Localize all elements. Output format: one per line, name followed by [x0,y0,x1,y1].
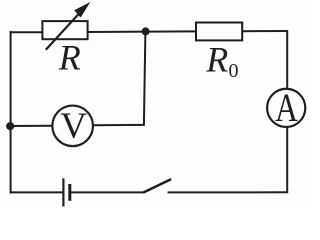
svg-text:0: 0 [229,60,239,82]
svg-text:R: R [58,37,81,77]
switch lever (open blade) [144,180,170,193]
wire: rheostat to R0 box through top junction [88,30,197,33]
wire: middle riser from voltmeter branch up to top junction [144,32,146,126]
rheostat arrow shaft [46,12,81,50]
svg-text:R: R [205,40,228,80]
voltmeter V circle [52,106,93,147]
wire: voltmeter branch, left dot to voltmeter [11,125,53,127]
battery long plate [62,178,64,206]
wire: top-left horizontal from corner to rheostat [10,31,43,33]
junction dot at voltmeter tap on left wire [6,122,14,130]
wire: ammeter down to bottom-right corner [286,127,288,192]
label A inside ammeter [275,85,298,129]
wire: voltmeter branch, voltmeter to middle riser [93,124,144,126]
battery short plate [68,184,71,201]
wire: bottom-left corner to battery long plate [10,191,64,193]
svg-text:A: A [275,85,298,129]
junction dot on top wire at middle riser [142,27,150,35]
wire: left vertical side [10,31,12,193]
svg-text:V: V [60,106,87,147]
wire: right vertical, corner down to ammeter [286,30,288,88]
resistor R rheostat body [42,21,87,39]
rheostat arrow head [74,2,90,18]
wire: bottom, switch right contact to bottom-right corner [168,191,289,193]
wire: bottom, battery to switch hinge [71,191,145,193]
resistor R0 body [196,23,242,41]
wire: R0 box to top-right corner [242,30,287,32]
ammeter A circle [267,89,305,127]
